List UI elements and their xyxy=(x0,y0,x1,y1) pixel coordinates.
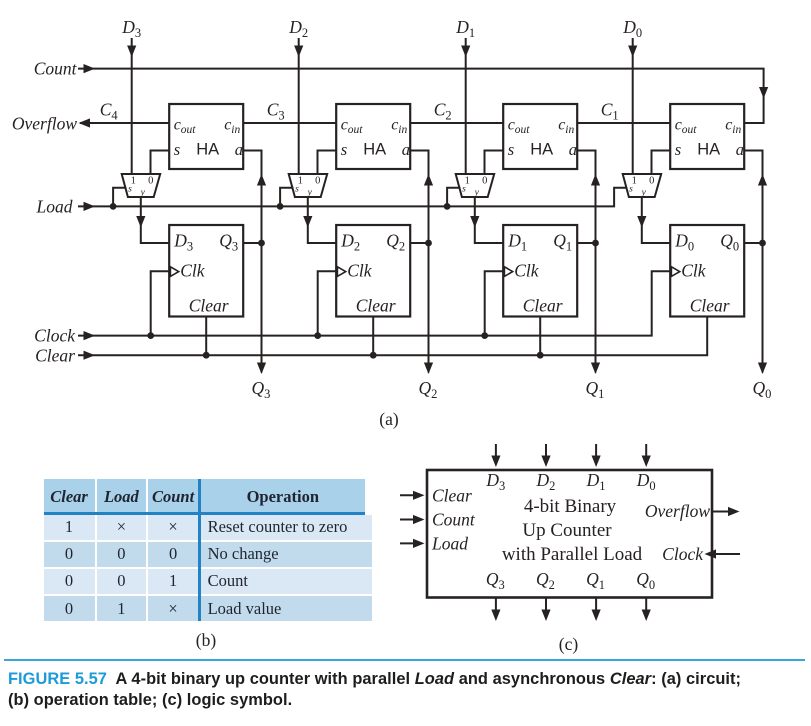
wire Load line ending at rightmost mux select xyxy=(78,188,627,211)
wire HA0 s output to mux M0 input 0 xyxy=(652,151,671,175)
wire Clock tap to FF2 Clk input xyxy=(314,271,336,339)
input label Overflow xyxy=(12,113,77,133)
wire carry C2 from HA1 c_out to HA2 c_in xyxy=(410,122,503,124)
node symbol D2 label xyxy=(536,470,556,493)
mux M1 xyxy=(456,174,495,198)
node symbol D0 label xyxy=(636,470,656,493)
node D1 input label xyxy=(455,17,475,40)
caption rule xyxy=(4,659,805,661)
operation table (b) xyxy=(44,479,366,620)
wire mux M0 output y to flip-flop FF0 D input xyxy=(637,197,670,243)
wire Clear tap to FF2 Clear input xyxy=(370,317,377,359)
wire Load tap to mux M3 select xyxy=(110,188,127,210)
svg-text:Overflow: Overflow xyxy=(12,113,77,133)
svg-text:C2: C2 xyxy=(434,100,452,123)
svg-text:HA: HA xyxy=(697,141,720,159)
wire carry C3 from HA2 c_out to HA3 c_in xyxy=(243,122,336,124)
wire Clock line ending at rightmost flip-flop Clk feed xyxy=(78,271,670,340)
node symbol Clear label xyxy=(432,485,472,505)
wire Clear tap to FF3 Clear input xyxy=(203,317,210,359)
wire D1 input vertical into mux M1 input 1 xyxy=(461,38,470,174)
svg-text:a: a xyxy=(402,140,410,159)
half-adder HA3 xyxy=(169,104,243,169)
wire Load tap to mux M2 select xyxy=(277,188,294,210)
node C3 carry label xyxy=(267,100,285,123)
svg-text:Clock: Clock xyxy=(662,544,704,564)
flip-flop FF3 xyxy=(169,225,243,317)
svg-text:Q2: Q2 xyxy=(419,378,438,401)
svg-text:(a): (a) xyxy=(379,409,399,429)
svg-text:Clk: Clk xyxy=(180,260,206,280)
node Q2 junction xyxy=(425,240,432,247)
input label Load xyxy=(36,197,73,217)
node symbol Q2 label xyxy=(536,569,555,592)
svg-text:s: s xyxy=(675,140,681,159)
flip-flop FF2 xyxy=(336,225,410,317)
input label Clear xyxy=(35,345,75,365)
svg-text:a: a xyxy=(736,140,744,159)
wire symbol Q3 output arrow xyxy=(491,598,500,622)
mux M0 xyxy=(623,174,662,198)
svg-text:Load: Load xyxy=(36,197,73,217)
wire symbol D0 input arrow xyxy=(642,444,651,467)
svg-text:D1: D1 xyxy=(455,17,475,40)
wire HA2 s output to mux M2 input 0 xyxy=(318,151,337,175)
wire Load tap to mux M0 select xyxy=(0,0,1,1)
svg-text:Q1: Q1 xyxy=(586,378,605,401)
node symbol Load label xyxy=(431,533,468,553)
svg-text:Clear: Clear xyxy=(523,296,563,316)
node C1 carry label xyxy=(601,100,619,123)
flip-flop FF1 xyxy=(503,225,577,317)
flip-flop FF0 xyxy=(670,225,744,317)
wire Overflow from c_out of leftmost HA xyxy=(79,118,170,127)
svg-text:Count: Count xyxy=(34,59,78,79)
svg-text:(c): (c) xyxy=(559,634,579,654)
wire carry C1 from HA0 c_out to HA1 c_in xyxy=(577,122,670,124)
wire D2 input vertical into mux M2 input 1 xyxy=(294,38,303,174)
svg-text:0: 0 xyxy=(148,176,153,187)
svg-text:y: y xyxy=(641,188,647,198)
mux M2 xyxy=(289,174,328,198)
svg-text:Clear: Clear xyxy=(690,296,730,316)
wire symbol Overflow output arrow xyxy=(712,507,740,516)
svg-text:Overflow: Overflow xyxy=(645,501,710,521)
node Q2 output label xyxy=(419,378,438,401)
svg-text:HA: HA xyxy=(363,141,386,159)
svg-text:s: s xyxy=(462,185,466,195)
wire FF2 Q output to trunk xyxy=(410,242,428,244)
label (c) xyxy=(559,634,579,654)
node D3 input label xyxy=(121,17,141,40)
wire symbol Clear input arrow xyxy=(400,491,425,500)
wire Q0 trunk feedback to HA0 a input and down to output xyxy=(744,151,767,375)
wire symbol D1 input arrow xyxy=(592,444,601,467)
wire D0 input vertical into mux M0 input 1 xyxy=(628,38,637,174)
wire symbol Count input arrow xyxy=(400,515,425,524)
svg-text:D0: D0 xyxy=(622,17,642,40)
svg-text:Q0: Q0 xyxy=(753,378,772,401)
wire Load tap to mux M1 select xyxy=(444,188,461,210)
wire Clock tap to FF3 Clk input xyxy=(147,271,169,339)
label (a) xyxy=(379,409,399,429)
node symbol D3 label xyxy=(485,470,505,493)
wire mux M3 output y to flip-flop FF3 D input xyxy=(136,197,169,243)
node D2 input label xyxy=(288,17,308,40)
node symbol Q0 label xyxy=(636,569,655,592)
half-adder HA1 xyxy=(503,104,577,169)
svg-text:Clear: Clear xyxy=(35,345,75,365)
svg-text:C1: C1 xyxy=(601,100,619,123)
node Q3 junction xyxy=(258,240,265,247)
svg-text:Clk: Clk xyxy=(681,260,707,280)
svg-text:a: a xyxy=(569,140,577,159)
node symbol Q1 label xyxy=(586,569,605,592)
input label Clock xyxy=(34,326,76,346)
node C2 carry label xyxy=(434,100,452,123)
svg-text:s: s xyxy=(508,140,514,159)
node symbol Q3 label xyxy=(486,569,505,592)
wire Clock tap to FF0 Clk input xyxy=(0,0,1,1)
svg-text:with Parallel Load: with Parallel Load xyxy=(502,544,643,565)
label symbol title xyxy=(502,496,643,565)
wire Q2 trunk feedback to HA2 a input and down to output xyxy=(410,151,433,375)
svg-text:Clock: Clock xyxy=(34,326,76,346)
svg-text:D3: D3 xyxy=(121,17,141,40)
node Q0 output label xyxy=(753,378,772,401)
wire FF1 Q output to trunk xyxy=(577,242,595,244)
wire Clear line ending at rightmost flip-flop Clear feed xyxy=(78,317,707,360)
half-adder HA2 xyxy=(336,104,410,169)
svg-text:Up Counter: Up Counter xyxy=(522,520,612,541)
svg-text:s: s xyxy=(128,185,132,195)
wire HA3 s output to mux M3 input 0 xyxy=(151,151,170,175)
node symbol Clock label xyxy=(662,544,704,564)
svg-text:C3: C3 xyxy=(267,100,285,123)
wire symbol Q1 output arrow xyxy=(592,598,601,622)
svg-text:s: s xyxy=(295,185,299,195)
logic symbol box xyxy=(427,470,712,598)
wire FF0 Q output to trunk xyxy=(744,242,762,244)
half-adder HA0 xyxy=(670,104,744,169)
node symbol Count label xyxy=(432,510,476,530)
svg-text:0: 0 xyxy=(649,176,654,187)
wire Count line with turn down into c_in of rightmost HA xyxy=(78,64,768,123)
wire mux M1 output y to flip-flop FF1 D input xyxy=(470,197,503,243)
node symbol D1 label xyxy=(586,470,606,493)
svg-text:y: y xyxy=(140,188,146,198)
svg-text:C4: C4 xyxy=(100,100,119,123)
svg-text:s: s xyxy=(629,185,633,195)
node D0 input label xyxy=(622,17,642,40)
svg-text:Clear: Clear xyxy=(189,296,229,316)
svg-text:s: s xyxy=(174,140,180,159)
input label Count xyxy=(34,59,78,79)
svg-text:Load: Load xyxy=(431,533,468,553)
svg-text:4-bit Binary: 4-bit Binary xyxy=(524,496,617,517)
wire symbol D3 input arrow xyxy=(491,444,500,467)
svg-text:0: 0 xyxy=(315,176,320,187)
wire Clear tap to FF0 Clear input xyxy=(0,0,1,1)
node Q1 output label xyxy=(586,378,605,401)
svg-text:Clear: Clear xyxy=(356,296,396,316)
wire HA1 s output to mux M1 input 0 xyxy=(485,151,504,175)
wire D3 input vertical into mux M3 input 1 xyxy=(127,38,136,174)
node symbol Overflow label xyxy=(645,501,710,521)
svg-text:a: a xyxy=(235,140,243,159)
svg-text:Clear: Clear xyxy=(432,485,472,505)
figure caption xyxy=(8,669,808,710)
svg-text:y: y xyxy=(307,188,313,198)
svg-text:0: 0 xyxy=(482,176,487,187)
svg-text:HA: HA xyxy=(530,141,553,159)
wire Clock tap to FF1 Clk input xyxy=(481,271,503,339)
svg-text:Clk: Clk xyxy=(347,260,373,280)
wire Q3 trunk feedback to HA3 a input and down to output xyxy=(243,151,266,375)
node C4 carry label xyxy=(100,100,119,123)
node Q0 junction xyxy=(759,240,766,247)
svg-text:Q3: Q3 xyxy=(252,378,271,401)
wire Q1 trunk feedback to HA1 a input and down to output xyxy=(577,151,600,375)
mux M3 xyxy=(122,174,161,198)
wire mux M2 output y to flip-flop FF2 D input xyxy=(303,197,336,243)
wire symbol Load input arrow xyxy=(400,539,425,548)
label (b) xyxy=(196,630,217,650)
wire symbol D2 input arrow xyxy=(541,444,550,467)
node Q3 output label xyxy=(252,378,271,401)
wire symbol Q0 output arrow xyxy=(642,598,651,622)
wire symbol Q2 output arrow xyxy=(541,598,550,622)
svg-text:y: y xyxy=(474,188,480,198)
svg-text:HA: HA xyxy=(196,141,219,159)
svg-text:D2: D2 xyxy=(288,17,308,40)
svg-text:(b): (b) xyxy=(196,630,217,650)
wire FF3 Q output to trunk xyxy=(243,242,261,244)
svg-text:s: s xyxy=(341,140,347,159)
node Q1 junction xyxy=(592,240,599,247)
svg-text:Clk: Clk xyxy=(514,260,540,280)
wire symbol Clock input arrow xyxy=(705,549,741,558)
svg-text:Count: Count xyxy=(432,510,476,530)
wire Clear tap to FF1 Clear input xyxy=(537,317,544,359)
